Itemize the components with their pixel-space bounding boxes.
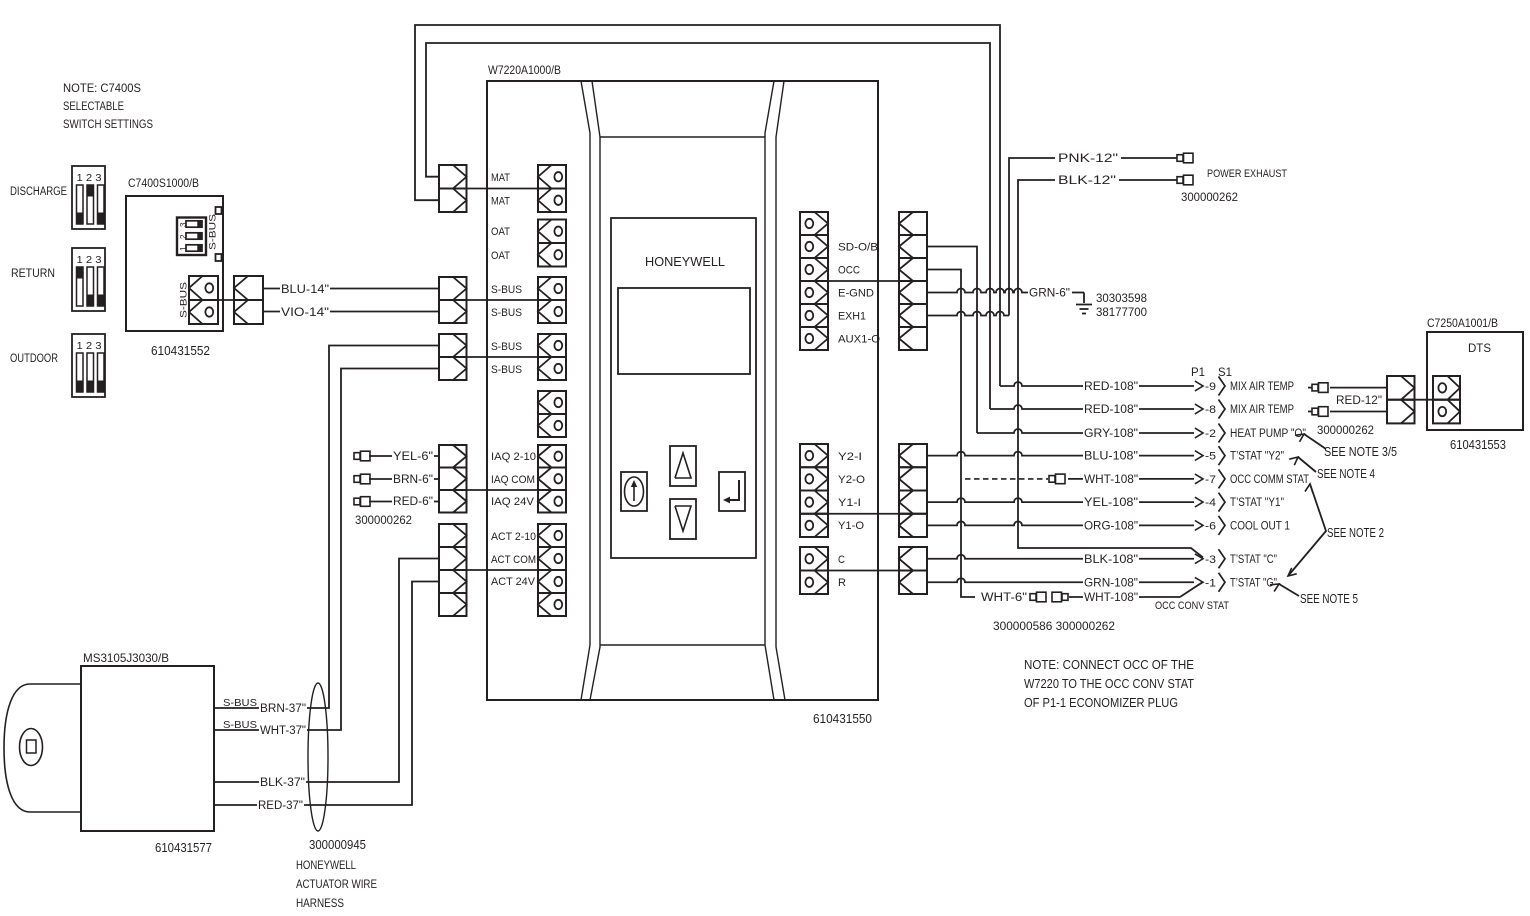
svg-text:MS3105J3030/B: MS3105J3030/B	[83, 651, 169, 665]
DIP switch OUTDOOR	[72, 334, 105, 397]
wire ACT plug to terminal	[453, 569, 551, 571]
wire OCC down to OCC CONV STAT	[927, 270, 975, 598]
connector plug MAT	[439, 165, 467, 212]
wire C7400S S-BUS to connector	[203, 299, 263, 301]
svg-text:MAT: MAT	[491, 196, 510, 208]
label 38177700	[1096, 305, 1147, 319]
label W7220A1000/B	[488, 63, 561, 77]
svg-text:SEE NOTE 5: SEE NOTE 5	[1300, 592, 1358, 606]
svg-text:SWITCH SETTINGS: SWITCH SETTINGS	[63, 117, 153, 131]
DIP switch DISCHARGE	[72, 166, 105, 229]
svg-text:NOTE: CONNECT OCC OF THE: NOTE: CONNECT OCC OF THE	[1024, 658, 1194, 672]
svg-text:S-BUS: S-BUS	[179, 282, 189, 318]
terminal block DTS	[1433, 376, 1460, 423]
bezel line right inner	[776, 81, 785, 700]
labels W7220 right terminals	[838, 242, 880, 590]
wire Y plug to terminal	[815, 513, 914, 515]
svg-text:PNK-12": PNK-12"	[1058, 153, 1118, 165]
terminal block SD-O/B..AUX1-O	[800, 212, 828, 350]
svg-text:RED-12": RED-12"	[1336, 395, 1382, 407]
svg-text:SELECTABLE: SELECTABLE	[63, 99, 124, 113]
label C7250A1001/B	[1427, 316, 1498, 330]
svg-text:ACT 2-10: ACT 2-10	[491, 531, 536, 543]
svg-text:300000262: 300000262	[1317, 425, 1374, 437]
svg-text:T’STAT "C": T’STAT "C"	[1230, 554, 1277, 566]
svg-text:BLK-108": BLK-108"	[1084, 552, 1138, 566]
wire WHT-6 / WHT-108 to P1-1	[980, 583, 1202, 605]
label S-BUS (rotated, C7400S dip)	[208, 214, 218, 250]
svg-text:-3: -3	[1205, 554, 1216, 566]
terminal block spare (unlabeled)	[538, 391, 566, 437]
svg-text:GRN-6": GRN-6"	[1029, 288, 1070, 300]
wire BLU-14	[263, 282, 439, 296]
svg-text:OUTDOOR: OUTDOOR	[10, 353, 58, 365]
wire PNK-12 to power exhaust	[1009, 158, 1177, 316]
svg-text:R: R	[838, 577, 846, 589]
svg-text:IAQ COM: IAQ COM	[491, 474, 535, 486]
svg-text:W7220A1000/B: W7220A1000/B	[488, 63, 561, 77]
wire BLK-108" to P1-3 T’STAT "C"	[927, 549, 1277, 568]
svg-text:BLU-14": BLU-14"	[281, 282, 329, 296]
wire RED-108" to P1-8 MIX AIR TEMP	[990, 400, 1294, 419]
label S-BUS / BRN-37	[223, 697, 307, 715]
connector plug SD group	[899, 212, 927, 350]
terminal block MAT	[538, 165, 566, 212]
LCD screen	[618, 288, 750, 374]
terminal block Y2/Y1	[800, 444, 828, 537]
svg-text:BLK-12": BLK-12"	[1058, 175, 1116, 187]
svg-text:WHT-6": WHT-6"	[981, 592, 1027, 604]
label HONEYWELL ACTUATOR WIRE HARNESS	[296, 858, 377, 910]
connector plug S-BUS upper	[439, 277, 467, 323]
svg-text:S-BUS: S-BUS	[208, 214, 218, 250]
bezel line right outer	[765, 81, 774, 700]
svg-text:2: 2	[179, 234, 188, 239]
label OUTDOOR	[10, 353, 58, 365]
terminal block S-BUS upper	[538, 277, 566, 323]
svg-text:BLU-108": BLU-108"	[1084, 449, 1138, 463]
label 300000262 (IAQ pigtails)	[355, 515, 412, 527]
tab bottom on C7400S edge	[216, 254, 222, 261]
terminal block ACT	[538, 524, 566, 616]
svg-text:GRY-108": GRY-108"	[1084, 426, 1138, 440]
svg-text:-7: -7	[1205, 474, 1216, 486]
svg-text:1: 1	[179, 246, 188, 251]
label C7400S1000/B	[128, 176, 199, 190]
button enter	[719, 472, 745, 511]
svg-text:P1: P1	[1191, 365, 1205, 379]
label RETURN	[11, 268, 55, 280]
svg-text:E-GND: E-GND	[838, 288, 874, 300]
label HONEYWELL	[645, 255, 725, 269]
svg-text:MIX AIR TEMP: MIX AIR TEMP	[1230, 381, 1294, 393]
label BLK-37	[259, 777, 306, 789]
label 610431577	[155, 841, 212, 855]
svg-text:T’STAT "Y1": T’STAT "Y1"	[1230, 497, 1284, 509]
svg-text:1 2 3: 1 2 3	[77, 254, 102, 266]
label 300000586 300000262	[993, 619, 1115, 633]
terminal block IAQ	[538, 445, 566, 513]
svg-text:300000262: 300000262	[355, 515, 412, 527]
DIP switch block inside C7400S (rotated)	[177, 218, 206, 256]
plug RED-12 lower	[1312, 407, 1328, 417]
wire CR plug to terminal	[815, 570, 914, 572]
wire S-BUS to actuator BRN	[214, 346, 439, 709]
svg-text:Y1-I: Y1-I	[838, 497, 861, 509]
svg-text:S-BUS: S-BUS	[491, 341, 522, 353]
label 610431553	[1450, 438, 1506, 452]
svg-text:T’STAT "G": T’STAT "G"	[1230, 577, 1277, 589]
callout SEE NOTE 5	[1270, 584, 1358, 606]
wire S-BUS to actuator WHT	[214, 369, 439, 731]
label 300000262 (DTS)	[1317, 425, 1374, 437]
label 300000945	[309, 838, 366, 852]
wire SD-O/B to P1-2 (vertical)	[927, 247, 977, 434]
svg-text:OCC: OCC	[838, 265, 860, 277]
wire GRN-108" to P1-1 T’STAT "G"	[927, 573, 1277, 592]
wire MAT loop inner (to P1-8)	[426, 43, 990, 409]
svg-text:NOTE: C7400S: NOTE: C7400S	[63, 81, 141, 95]
plug RED-6	[354, 497, 370, 507]
ground symbol	[1076, 305, 1092, 314]
wire RED-12 upper	[1308, 387, 1387, 389]
svg-text:VIO-14": VIO-14"	[281, 305, 329, 319]
label S-BUS (rotated, C7400S terminals)	[179, 282, 189, 318]
svg-text:T’STAT "Y2": T’STAT "Y2"	[1230, 451, 1284, 463]
sensor module C7400S1000/B box	[126, 196, 223, 331]
wire ACT COM to actuator BLK	[214, 559, 439, 783]
svg-text:-2: -2	[1205, 428, 1216, 440]
wire BRN-6 pigtail	[369, 474, 439, 486]
bezel line left outer	[581, 81, 590, 700]
svg-text:30303598: 30303598	[1096, 291, 1147, 305]
svg-text:-9: -9	[1205, 381, 1216, 393]
svg-text:WHT-37": WHT-37"	[260, 725, 306, 737]
svg-text:POWER EXHAUST: POWER EXHAUST	[1207, 168, 1287, 180]
svg-text:SEE NOTE 3/5: SEE NOTE 3/5	[1324, 445, 1397, 459]
svg-text:610431550: 610431550	[813, 712, 872, 726]
wire S-BUS upper plug to terminal	[453, 299, 551, 301]
note text: C7400S selectable switch settings	[63, 81, 153, 131]
svg-text:RED-108": RED-108"	[1084, 402, 1138, 416]
svg-text:RETURN: RETURN	[11, 268, 55, 280]
button menu (circled arrow)	[621, 472, 647, 511]
svg-text:300000262: 300000262	[1181, 192, 1238, 204]
wire GRY-108" to P1-2 HEAT PUMP "O"	[977, 424, 1306, 443]
svg-text:300000945: 300000945	[309, 838, 366, 852]
label S1	[1218, 365, 1232, 379]
svg-text:-5: -5	[1205, 451, 1216, 463]
wire RED-12 lower	[1308, 411, 1387, 413]
wire MAT plug to terminal	[453, 188, 551, 190]
callout SEE NOTE 3/5	[1295, 434, 1397, 459]
actuator MS3105J3030 body	[81, 666, 214, 831]
display panel	[611, 218, 756, 558]
label PNK-12	[1055, 153, 1121, 165]
svg-text:38177700: 38177700	[1096, 305, 1147, 319]
wire RED-6 pigtail	[369, 496, 439, 508]
plug BRN-6	[354, 474, 370, 484]
label RED-37	[257, 800, 304, 812]
label S-BUS / WHT-37	[223, 719, 307, 737]
svg-text:IAQ 24V: IAQ 24V	[491, 496, 535, 508]
svg-text:ORG-108": ORG-108"	[1084, 518, 1138, 532]
svg-text:RED-6": RED-6"	[393, 496, 433, 508]
wire RED-108" to P1-9 MIX AIR TEMP	[1000, 377, 1294, 396]
wire E-GND to ground	[927, 289, 1084, 304]
tab top on C7400S edge	[216, 207, 222, 214]
svg-text:W7220 TO THE OCC CONV STAT: W7220 TO THE OCC CONV STAT	[1024, 677, 1194, 691]
bezel line left inner	[590, 81, 600, 700]
svg-text:EXH1: EXH1	[838, 311, 866, 323]
terminal block C R	[800, 547, 828, 594]
svg-text:610431577: 610431577	[155, 841, 212, 855]
svg-text:-8: -8	[1205, 404, 1216, 416]
label DTS	[1468, 341, 1491, 355]
S-BUS terminal block on C7400S	[189, 276, 218, 324]
svg-text:OAT: OAT	[491, 226, 510, 238]
svg-text:S-BUS: S-BUS	[223, 719, 257, 731]
svg-text:BLK-37": BLK-37"	[260, 777, 305, 789]
note: connect OCC of the W7220	[1024, 658, 1194, 710]
svg-text:1 2 3: 1 2 3	[77, 340, 102, 352]
connector plug ACT	[439, 524, 467, 616]
callout SEE NOTE 2	[1288, 484, 1384, 576]
label DISCHARGE	[10, 186, 67, 198]
svg-text:COOL OUT 1: COOL OUT 1	[1230, 520, 1290, 532]
label 300000262 (power exhaust)	[1181, 192, 1238, 204]
svg-text:SEE NOTE 2: SEE NOTE 2	[1327, 526, 1384, 540]
svg-text:DTS: DTS	[1468, 341, 1491, 355]
svg-text:-1: -1	[1205, 577, 1216, 589]
DIP switch RETURN	[72, 248, 105, 311]
label POWER EXHAUST	[1207, 168, 1287, 180]
svg-text:RED-108": RED-108"	[1084, 379, 1138, 393]
wire EXH1 to PNK-12	[927, 312, 1009, 316]
connector plug DTS	[1387, 376, 1415, 423]
svg-text:610431552: 610431552	[151, 344, 210, 358]
label RED-12	[1335, 395, 1383, 407]
svg-text:BRN-6": BRN-6"	[393, 474, 433, 486]
svg-text:AUX1-O: AUX1-O	[838, 334, 880, 346]
svg-text:300000586 300000262: 300000586 300000262	[993, 619, 1115, 633]
label 610431550	[813, 712, 872, 726]
label OCC CONV STAT	[1155, 600, 1229, 612]
terminal block OAT	[538, 220, 566, 267]
label BLK-12	[1055, 175, 1119, 187]
harness bundle ellipse	[308, 683, 328, 831]
wire YEL-6 pigtail	[369, 451, 439, 463]
svg-text:C7250A1001/B: C7250A1001/B	[1427, 316, 1498, 330]
svg-text:SEE NOTE 4: SEE NOTE 4	[1317, 467, 1375, 481]
svg-text:OF P1-1 ECONOMIZER PLUG: OF P1-1 ECONOMIZER PLUG	[1024, 696, 1178, 710]
connector plug IAQ	[439, 445, 467, 513]
svg-text:S-BUS: S-BUS	[491, 364, 522, 376]
faceplate bottom edge	[600, 644, 765, 646]
wire VIO-14	[263, 305, 439, 319]
wire WHT-108" to P1-7 OCC COMM STAT	[965, 469, 1309, 488]
svg-text:HARNESS: HARNESS	[296, 896, 344, 910]
label P1	[1191, 365, 1205, 379]
svg-text:HONEYWELL: HONEYWELL	[296, 858, 356, 872]
connector plug Y group	[899, 444, 927, 537]
label 610431552	[151, 344, 210, 358]
label MS3105J3030/B	[83, 651, 169, 665]
svg-text:ACT 24V: ACT 24V	[491, 576, 536, 588]
svg-text:Y2-I: Y2-I	[838, 451, 862, 463]
svg-text:C: C	[838, 554, 845, 566]
svg-text:ACT COM: ACT COM	[491, 554, 536, 566]
svg-text:S1: S1	[1218, 365, 1232, 379]
plug YEL-6	[354, 451, 370, 461]
svg-text:610431553: 610431553	[1450, 438, 1506, 452]
plug PNK-12	[1177, 153, 1193, 163]
connector plug at C7400S	[234, 276, 263, 324]
connector plug S-BUS lower	[439, 334, 467, 380]
faceplate top edge	[600, 136, 765, 138]
svg-text:ACTUATOR WIRE: ACTUATOR WIRE	[296, 877, 377, 891]
plug BLK-12	[1177, 175, 1193, 185]
svg-text:MIX AIR TEMP: MIX AIR TEMP	[1230, 404, 1294, 416]
wire ACT 24V to actuator RED	[214, 582, 439, 806]
controller W7220 outline	[487, 81, 878, 700]
svg-text:C7400S1000/B: C7400S1000/B	[128, 176, 199, 190]
svg-text:OCC CONV STAT: OCC CONV STAT	[1155, 600, 1229, 612]
actuator hub circle	[20, 729, 43, 766]
label 30303598	[1096, 291, 1147, 305]
terminal block S-BUS lower	[538, 334, 566, 380]
svg-text:IAQ 2-10: IAQ 2-10	[491, 451, 536, 463]
wire DTS plug to terminal	[1401, 399, 1447, 401]
svg-text:-6: -6	[1205, 520, 1216, 532]
labels W7220 left terminals	[491, 172, 536, 588]
wire ORG-108" to P1-6 COOL OUT 1	[927, 516, 1290, 535]
svg-text:S-BUS: S-BUS	[223, 697, 257, 709]
svg-text:-4: -4	[1205, 497, 1216, 509]
wire S-BUS lower plug to terminal	[453, 356, 551, 358]
svg-text:SD-O/B: SD-O/B	[838, 242, 878, 254]
label GRN-6	[1028, 288, 1071, 300]
svg-text:BRN-37": BRN-37"	[260, 703, 306, 715]
svg-text:HONEYWELL: HONEYWELL	[645, 255, 725, 269]
svg-text:Y1-O: Y1-O	[838, 520, 864, 532]
svg-text:WHT-108": WHT-108"	[1084, 472, 1138, 486]
svg-text:Y2-O: Y2-O	[838, 474, 865, 486]
svg-text:S-BUS: S-BUS	[491, 307, 522, 319]
svg-text:3: 3	[179, 222, 188, 227]
wire MAT loop outer (to P1-9)	[415, 25, 1000, 386]
svg-text:1 2 3: 1 2 3	[77, 172, 102, 184]
button down	[670, 499, 696, 539]
svg-text:RED-37": RED-37"	[258, 800, 303, 812]
actuator shaft tab	[4, 684, 81, 812]
button up	[670, 446, 696, 486]
wire SD plug to terminal	[815, 280, 914, 282]
plug RED-12 upper	[1312, 383, 1328, 393]
wire YEL-108" to P1-4 T’STAT "Y1"	[927, 493, 1284, 512]
svg-text:YEL-108": YEL-108"	[1084, 495, 1138, 509]
wire BLK-12 to P1-3	[1018, 180, 1203, 558]
wire IAQ plug to terminal	[453, 489, 551, 491]
svg-text:OCC COMM STAT: OCC COMM STAT	[1230, 474, 1309, 486]
svg-text:GRN-108": GRN-108"	[1084, 575, 1138, 589]
callout SEE NOTE 4	[1289, 457, 1375, 481]
sensor C7250A1001/B DTS box	[1427, 332, 1523, 430]
wire BLU-108" to P1-5 T’STAT "Y2"	[927, 446, 1284, 465]
svg-text:HEAT PUMP "O": HEAT PUMP "O"	[1230, 428, 1306, 440]
svg-text:YEL-6": YEL-6"	[393, 451, 433, 463]
svg-text:S-BUS: S-BUS	[491, 284, 522, 296]
svg-text:WHT-108": WHT-108"	[1084, 590, 1138, 604]
svg-text:OAT: OAT	[491, 250, 510, 262]
connector plug C R	[899, 547, 927, 594]
svg-text:MAT: MAT	[491, 172, 510, 184]
svg-text:DISCHARGE: DISCHARGE	[10, 186, 67, 198]
